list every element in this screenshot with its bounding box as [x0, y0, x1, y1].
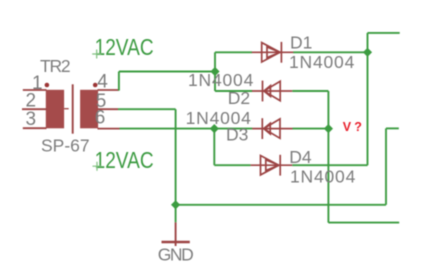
pin 2 [22, 108, 47, 110]
wire pin4 riser [118, 72, 120, 91]
polarity dot pin 4 [93, 83, 98, 88]
pin 3 [23, 127, 47, 129]
transformer tick [64, 108, 69, 110]
wire output stub top [368, 32, 400, 34]
svg-text:D2: D2 [228, 88, 250, 108]
wire gnd right riser [385, 128, 387, 204]
svg-text:12VAC: 12VAC [95, 34, 154, 60]
junction pin4 branch [210, 67, 219, 76]
svg-text:4: 4 [97, 71, 108, 92]
wire gnd horizontal [176, 204, 386, 206]
wire gnd rail vertical [175, 109, 177, 222]
diode D4 [251, 155, 293, 176]
svg-text:SP-67: SP-67 [41, 136, 90, 156]
wire D2 anode right [292, 90, 328, 92]
diode D2 [252, 81, 292, 102]
diode D3 [252, 118, 292, 139]
svg-text:V ?: V ? [343, 120, 362, 134]
wire V rail vertical [327, 91, 329, 223]
wire to D1 anode [215, 51, 252, 53]
junction gnd [171, 200, 180, 209]
junction D1 cathode [363, 48, 372, 57]
polarity dot pin 1 [45, 83, 50, 88]
svg-text:6: 6 [95, 108, 106, 129]
wire to D2 cathode [215, 90, 252, 92]
label origin cross (top 12VAC) [92, 50, 101, 59]
wire D4 cathode to rail [292, 164, 367, 166]
wire to D4 anode [214, 164, 250, 166]
diode D1 [252, 42, 293, 63]
svg-text:D1: D1 [290, 32, 312, 52]
wire D3 anode right [293, 128, 329, 130]
transformer TR2 primary winding [46, 90, 64, 129]
pin 1 [23, 89, 47, 91]
pin 6 [98, 128, 120, 130]
svg-text:1N4004: 1N4004 [290, 167, 356, 187]
wire D1 cathode to rail [293, 51, 367, 53]
wire gnd stub right [386, 127, 399, 129]
wire vertical D1/D2 branch [214, 52, 216, 91]
transformer core [72, 84, 74, 133]
wire pin6 to D3 [120, 128, 253, 130]
svg-text:D4: D4 [289, 147, 312, 167]
wire pin5 horizontal [118, 108, 176, 110]
svg-text:3: 3 [26, 109, 37, 130]
wire V rail bottom horizontal [328, 222, 399, 224]
pin 5 [98, 108, 119, 110]
svg-text:D3: D3 [226, 125, 248, 145]
wire pin4 horizontal [119, 71, 215, 73]
svg-text:1N4004: 1N4004 [188, 70, 254, 90]
junction pin6/D3/D4 [210, 124, 219, 133]
ground bar [162, 241, 190, 244]
svg-text:12VAC: 12VAC [95, 147, 154, 173]
svg-text:GND: GND [158, 245, 193, 265]
label origin cross (bottom 12VAC) [93, 162, 102, 171]
transformer TR2 secondary winding [80, 90, 98, 129]
svg-text:1N4004: 1N4004 [289, 52, 355, 72]
svg-text:TR2: TR2 [40, 56, 70, 76]
wire down to D4 [213, 129, 215, 166]
pin 4 [98, 89, 119, 91]
wire output rail vertical [367, 33, 369, 165]
junction D3 anode / V probe [324, 124, 333, 133]
ground lead [175, 222, 177, 246]
